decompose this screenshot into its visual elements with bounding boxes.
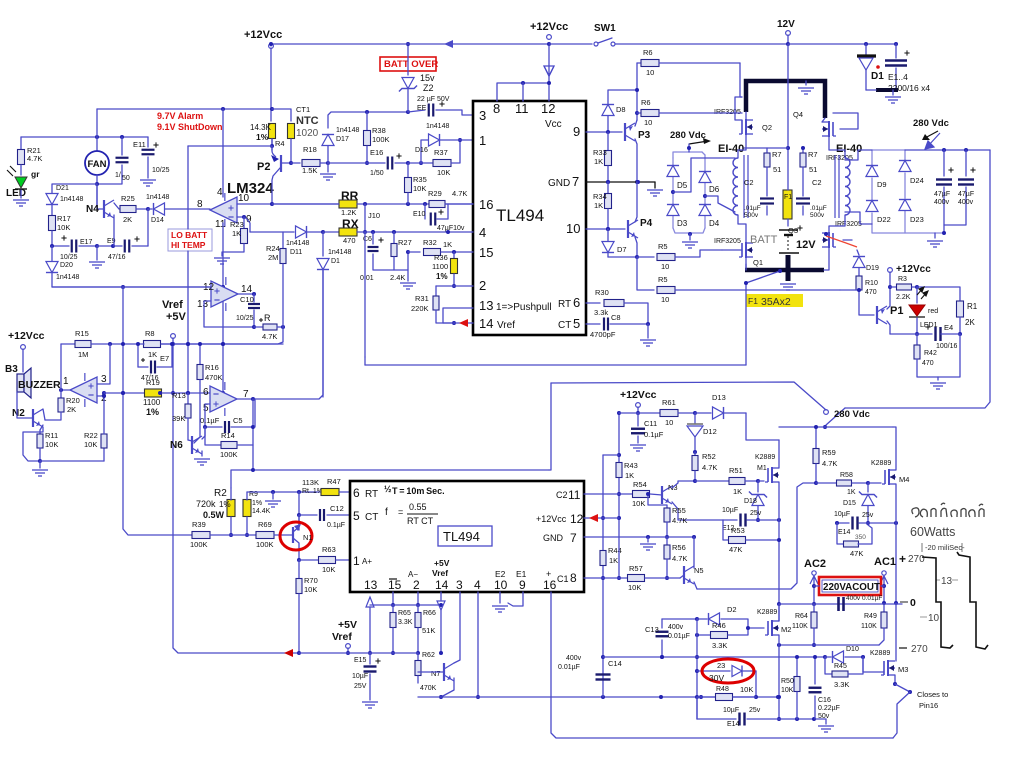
svg-text:470K: 470K [205,373,223,382]
svg-text:D15: D15 [843,500,856,507]
svg-text:D4: D4 [709,219,720,228]
svg-text:110K: 110K [792,623,808,630]
thermistor CT1 NTC 1020 yellow [288,124,295,139]
diode D6 [699,172,711,183]
svg-text:1%: 1% [436,272,448,281]
svg-text:23: 23 [717,661,725,670]
svg-text:+5V: +5V [166,311,187,323]
wire M4 source column AC1 side [895,484,897,523]
svg-text:R11: R11 [45,431,58,440]
wire +12Vcc vertical x271 [270,48,272,121]
svg-text:350: 350 [855,534,866,541]
resistor R37 10K [408,162,432,164]
wire sense bus y365 [365,364,746,366]
svg-text:10/25: 10/25 [152,167,170,174]
wire R2 top rail y470 [231,470,549,488]
svg-text:AC1: AC1 [874,556,896,568]
svg-text:470K: 470K [420,685,437,692]
svg-text:E4: E4 [944,323,953,332]
waveform time label [922,543,962,552]
svg-text:47µF: 47µF [958,191,974,198]
wire opamp7 output [237,398,255,400]
wire pin13 loop [443,308,473,323]
op-amp U1C 5/6/7 [210,386,237,412]
transistor P3 [586,131,622,133]
resistor R5 10 lower [637,257,654,290]
svg-text:12: 12 [570,512,584,526]
svg-text:10K: 10K [413,184,426,193]
svg-text:C16: C16 [818,697,831,704]
wire Q4 to T2 [829,136,845,158]
svg-text:R18: R18 [303,145,317,154]
ground C11 [630,445,646,451]
node Vref terminal [171,334,176,339]
svg-text:R30: R30 [595,288,609,297]
resistor R39 100K [192,532,210,539]
wire LM324 pin11 down [222,223,224,393]
wire output7 down to 280v sense row [254,399,256,427]
transistor N5 [683,566,685,584]
svg-text:LED: LED [6,188,26,199]
svg-text:10K: 10K [57,223,70,232]
svg-text:9: 9 [519,578,526,592]
svg-text:R48: R48 [716,686,729,693]
resistor R65 3.3K [392,605,394,612]
svg-text:E16: E16 [370,148,383,157]
svg-text:16: 16 [543,578,557,592]
svg-text:Pin16: Pin16 [919,701,938,710]
svg-text:R70: R70 [304,576,318,585]
wire y645 gate feed row [779,644,879,646]
ground bridge [688,232,692,236]
svg-text:D10: D10 [846,646,859,653]
svg-text:R14: R14 [221,431,235,440]
resistor R55 4.7K [648,494,667,508]
wire Q3 source to bar [824,247,829,270]
svg-text:R22: R22 [84,431,98,440]
svg-text:0.01µF: 0.01µF [558,664,580,671]
svg-text:TL494: TL494 [496,206,544,225]
svg-text:1K: 1K [594,201,603,210]
svg-text:C12: C12 [330,504,344,513]
svg-text:D1: D1 [331,258,340,265]
svg-text:270: 270 [911,644,928,655]
ground under E11 [140,180,156,186]
wire bridge mid right to T1 [703,194,707,198]
svg-text:F1: F1 [748,296,758,306]
svg-text:R32: R32 [423,238,437,247]
svg-text:10: 10 [566,221,580,236]
svg-text:R61: R61 [662,398,676,407]
svg-text:R46: R46 [712,621,726,630]
label TL494 boxed [438,526,492,546]
resistor R19 1100 1% yellow [104,392,145,394]
svg-text:2K: 2K [123,215,132,224]
svg-text:R29: R29 [428,189,442,198]
zener Z2 15v [407,44,409,75]
diode D1 1n4148 vertical [322,232,324,256]
wire Q3 gate red [843,239,852,241]
svg-text:R64: R64 [795,613,808,620]
LED red LED1 [916,287,918,303]
diode D22 [866,201,878,212]
capacitor 400v 0.01uF output [837,597,840,611]
svg-text:+5V: +5V [434,558,450,568]
svg-text:4.7K: 4.7K [27,154,42,163]
diode D10 [825,656,831,658]
svg-text:K2889: K2889 [871,460,891,467]
transformer T1 winding [733,158,738,215]
svg-text:10: 10 [238,193,250,204]
resistor R29 4.7K [429,201,445,208]
svg-text:D7: D7 [617,245,627,254]
svg-text:C2: C2 [556,490,568,500]
resistor R42 470 [916,334,918,344]
svg-text:R62: R62 [422,652,435,659]
svg-text:400v: 400v [958,199,974,206]
svg-text:D6: D6 [709,185,720,194]
svg-text:R59: R59 [822,448,836,457]
wire rail to NTC [272,109,291,121]
resistor R62 470K [417,653,419,660]
ground battery bar [805,81,807,85]
svg-text:0.01: 0.01 [360,275,374,282]
svg-text:Vref: Vref [162,299,183,311]
thick bar D1 ground [876,88,898,92]
svg-text:0.1µF: 0.1µF [644,430,664,439]
svg-text:R54: R54 [633,480,647,489]
transistor N6 [191,436,193,454]
svg-text:11: 11 [215,219,226,230]
svg-text:1%: 1% [256,132,269,142]
svg-text:1%: 1% [146,407,159,417]
capacitor C11 0.1uF [637,413,639,426]
wire emitter bus y461 [40,460,104,462]
svg-text:51: 51 [809,165,817,174]
transistor P2 [271,139,273,146]
wire 280V sense y382 [551,382,826,410]
svg-text:10µF: 10µF [723,707,739,714]
wire y146 emitter rail [188,145,272,147]
svg-text:1n4148: 1n4148 [426,123,449,130]
svg-text:4.7K: 4.7K [452,189,467,198]
svg-text:Z2: Z2 [423,83,434,93]
svg-text:D19: D19 [866,265,879,272]
wire y719 bus right [779,718,826,720]
svg-text:R58: R58 [840,472,853,479]
svg-text:4: 4 [217,187,223,198]
svg-text:D24: D24 [910,176,924,185]
svg-text:R38: R38 [372,126,386,135]
mosfet M3 K2889 [863,657,884,672]
svg-text:8: 8 [493,101,500,116]
ground gnd7 row [647,537,649,542]
wire R47 row y492 [247,491,320,493]
svg-text:12: 12 [541,101,555,116]
svg-text:AC2: AC2 [804,558,826,570]
resistor R 4.7K [254,326,262,328]
svg-text:=: = [398,507,403,517]
resistor R70 10K [298,560,300,578]
svg-text:220VACOUT: 220VACOUT [823,582,880,593]
svg-text:+12Vcc: +12Vcc [620,389,657,401]
svg-text:D18: D18 [744,498,757,505]
svg-text:1K: 1K [733,487,742,496]
svg-text:100/16: 100/16 [936,343,958,350]
svg-text:1: 1 [353,554,360,568]
svg-text:400v: 400v [668,624,684,631]
wire LM324 pin9 input [237,216,244,218]
diode D3 [667,205,679,216]
resistor R57 10K [619,577,627,579]
svg-text:10/25: 10/25 [60,254,78,261]
ground R23 [214,258,230,264]
svg-text:IRF3205: IRF3205 [714,238,741,245]
svg-text:25v: 25v [749,707,761,714]
resistor R20 2K [60,390,62,398]
ground mid cluster [96,246,98,260]
svg-text:+: + [899,552,906,566]
svg-text:GND: GND [543,533,564,543]
svg-text:R66: R66 [423,610,436,617]
capacitor E14 10uF 25v upper [837,522,849,524]
resistor R15 1M [61,343,75,345]
svg-text:D20: D20 [60,262,73,269]
wire y413 rail [619,412,660,414]
svg-text:E17: E17 [80,239,93,246]
svg-text:D23: D23 [910,215,924,224]
wire output7 to right [255,270,323,399]
resistor R43 1K [616,463,622,478]
capacitor C5 0.1uF [205,426,222,428]
ground R47 row [272,492,274,499]
svg-text:1: 1 [63,376,69,387]
capacitor E16 1/50 [327,162,329,164]
svg-text:51: 51 [773,165,781,174]
wire N1 emitter node [297,558,301,562]
svg-text:Closes to: Closes to [917,690,948,699]
wire pin13 arrow up [366,597,374,607]
wire Q2 to T1 [738,134,746,158]
transformer T2 winding [845,158,850,215]
resistor R7 51 second [802,148,804,152]
svg-text:110K: 110K [861,623,877,630]
wire M2 drain up [778,604,780,621]
resistor R27 2.4K [393,232,395,243]
wire pin5 loop down [205,404,210,427]
svg-text:R35: R35 [413,175,427,184]
ground D17 [327,163,329,172]
svg-text:470: 470 [865,289,877,296]
svg-text:D11: D11 [290,249,302,256]
wire diagonal to 280Vdc terminal [826,408,845,425]
svg-text:10: 10 [494,578,508,592]
svg-text:15v: 15v [420,73,435,83]
resistor R18 1.5K [291,162,300,164]
svg-text:R7: R7 [808,150,818,159]
svg-text:3.3k: 3.3k [594,308,608,317]
svg-text:51K: 51K [422,626,435,635]
svg-text:LM324: LM324 [227,180,274,197]
fan motor FAN [96,109,98,151]
svg-text:400v: 400v [846,595,861,602]
resistor R35 10K [407,163,409,177]
mosfet Q3 IRF3205 [832,233,834,247]
svg-text:1K: 1K [594,157,603,166]
wire R24 R loop to y344 [144,327,283,344]
wire riser x619 R43 [618,413,620,578]
svg-text:1.2K: 1.2K [341,208,356,217]
wire y137 fan rail [21,136,148,138]
wire T1 bottom to Q1 [738,215,746,243]
diode D9 [866,166,878,177]
resistor R61 10 [660,410,678,417]
svg-text:47µF: 47µF [934,191,950,198]
capacitor E17 10/25 [52,245,69,247]
wire M4 drain [893,427,896,470]
svg-text:R50: R50 [781,678,794,685]
transistor P4 [586,228,625,230]
svg-text:A−: A− [408,570,418,579]
resistor R54 10K [584,493,619,495]
svg-text:100K: 100K [220,450,238,459]
svg-text:SW1: SW1 [594,23,616,34]
svg-text:E1: E1 [516,569,527,579]
wire pin16 down to bottom bus [551,592,893,738]
svg-text:9.7V Alarm: 9.7V Alarm [157,111,203,121]
svg-text:TL494: TL494 [443,529,480,544]
resistor R33 1K [607,132,609,150]
svg-text:1=>Pushpull: 1=>Pushpull [496,302,552,313]
svg-text:Rt..1%: Rt..1% [302,488,323,495]
wire pin15 down [392,592,394,605]
wire P2 collector down x272 [272,168,280,204]
svg-text:D9: D9 [877,180,887,189]
svg-text:2: 2 [413,578,420,592]
svg-text:100K: 100K [190,540,208,549]
svg-text:10K: 10K [45,440,58,449]
svg-text:M3: M3 [898,665,908,674]
svg-text:N7: N7 [431,669,441,678]
svg-text:D12: D12 [703,427,717,436]
wire D13 to M1 drain loop [746,413,779,440]
svg-text:RT CT: RT CT [407,516,434,526]
ground battery [780,284,796,290]
svg-text:D8: D8 [616,105,626,114]
wire Vref vertical down x173 [173,344,299,653]
wire opamp out to R15 [61,389,70,391]
capacitor E7 47/16 [138,366,148,368]
svg-text:R39: R39 [192,520,206,529]
svg-text:½: ½ [384,484,392,494]
svg-text:14: 14 [435,578,449,592]
svg-text:C11: C11 [644,419,657,428]
thick bar battery positive staple [746,81,825,118]
svg-text:C5: C5 [233,416,243,425]
diode D20 1n4148 [51,246,53,261]
wire x697 column [696,619,698,719]
wire D14 junction down [147,209,149,246]
resistor R63 10K [299,559,318,561]
transistor N7 [443,663,445,681]
svg-text:CT: CT [558,320,571,331]
mosfet Q4 IRF3205 [832,122,834,136]
svg-text:R25: R25 [121,194,135,203]
svg-text:0.1µF: 0.1µF [200,416,220,425]
svg-text:C1: C1 [557,574,569,584]
svg-text:R36: R36 [434,253,448,262]
svg-text:10K: 10K [437,168,450,177]
svg-text:K2889: K2889 [757,609,777,616]
resistor R59 4.7K [815,427,817,448]
svg-text:9.1V ShutDown: 9.1V ShutDown [157,122,223,132]
wire 280V sense riser x551 [549,383,551,470]
svg-text:50v: 50v [818,713,830,720]
svg-text:+12Vcc: +12Vcc [244,29,282,41]
svg-text:T = 10m Sec.: T = 10m Sec. [392,486,445,496]
diode D8 [607,116,609,132]
svg-text:50: 50 [122,175,130,182]
svg-text:R53: R53 [731,526,745,535]
ground N6 [194,459,210,465]
svg-text:11: 11 [515,101,529,116]
transistor N3 [661,486,663,504]
capacitor E4 100/16 [890,333,932,335]
svg-text:14.3K: 14.3K [250,123,272,132]
svg-text:1K: 1K [625,471,634,480]
svg-text:15: 15 [479,245,493,260]
svg-text:E10: E10 [413,211,426,218]
wire y657 bus [603,656,825,658]
svg-text:C10: C10 [240,295,254,304]
svg-text:+12Vcc: +12Vcc [8,330,45,342]
wire LO BATT vertical x188 [187,146,189,229]
svg-text:280 Vdc: 280 Vdc [834,409,870,420]
resistor R22 10K [103,448,105,461]
wire P4 emitter to R5s [608,256,637,258]
svg-text:13: 13 [941,576,953,587]
svg-text:10: 10 [644,118,652,127]
wire pin13 feedback [204,301,254,327]
svg-text:9: 9 [573,124,580,139]
svg-text:BUZZER: BUZZER [18,379,61,391]
svg-text:R3: R3 [898,276,907,283]
svg-text:D21: D21 [56,185,69,192]
svg-text:R55: R55 [672,506,686,515]
diode D1 thick [865,44,867,55]
svg-text:10: 10 [661,262,669,271]
svg-text:4: 4 [479,225,486,240]
svg-text:1/50: 1/50 [370,170,384,177]
svg-text:EI-40: EI-40 [718,143,744,155]
wire vref bus red arrow [284,649,293,657]
svg-text:1: 1 [479,133,486,148]
wire gnd7 row [584,536,694,538]
resistor R52 4.7K [694,452,696,455]
capacitor E12 10uF 25v [723,519,737,521]
waveform 13 label [936,579,958,581]
label F1 35Ax2 [746,294,803,307]
svg-text:R6: R6 [641,98,651,107]
resistor R51 1K [695,480,729,482]
wire box to AC1 [881,585,884,587]
svg-text:Vcc: Vcc [545,119,562,130]
svg-text:HI TEMP: HI TEMP [171,240,206,250]
svg-text:R15: R15 [75,329,89,338]
resistor R50 10K [796,657,798,676]
resistor R2 720k 1% 0.5W yellow [227,500,235,517]
svg-text:+: + [546,569,551,579]
